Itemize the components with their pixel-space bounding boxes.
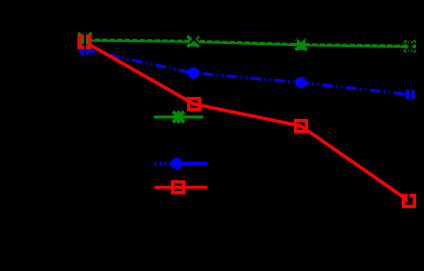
black error bar green 2 (upper): [192, 33, 194, 40]
black error bar blue 4: [409, 86, 411, 103]
red marker 4: [404, 196, 415, 207]
blue marker 2: [188, 67, 200, 79]
green marker 1: [78, 32, 91, 46]
red marker 2: [189, 99, 200, 110]
black X marker over green 2: [190, 35, 199, 44]
green line black dash overlay: [85, 39, 410, 45]
green marker 3: [295, 39, 307, 50]
legend red line: [155, 186, 208, 189]
legend blue dotted segment: [155, 162, 173, 165]
blue marker 4: [404, 89, 415, 100]
legend green asterisk: [172, 111, 184, 123]
black tick marks over green 3: [296, 39, 306, 42]
green marker 2: [187, 36, 199, 47]
blue series line: [85, 50, 410, 95]
red marker 1: [79, 36, 90, 47]
black error bar green 4: [409, 38, 411, 55]
black X marker over green 4: [406, 42, 415, 51]
green marker 4: [404, 41, 416, 53]
legend blue solid segment: [172, 162, 207, 165]
green series line: [85, 40, 410, 46]
black error bar cluster at x=85: [84, 30, 86, 58]
red marker 3: [296, 121, 307, 132]
black error bar green 3 (upper): [300, 36, 302, 42]
legend blue circle: [171, 158, 182, 169]
green marker 2 body: [187, 38, 199, 47]
legend green line: [154, 116, 203, 119]
black error bar red 4: [408, 193, 410, 201]
green marker 3 body: [295, 41, 307, 50]
legend red square: [173, 182, 184, 193]
blue marker 3: [295, 77, 306, 88]
red series line: [85, 42, 409, 201]
blue marker 1: [79, 44, 90, 55]
